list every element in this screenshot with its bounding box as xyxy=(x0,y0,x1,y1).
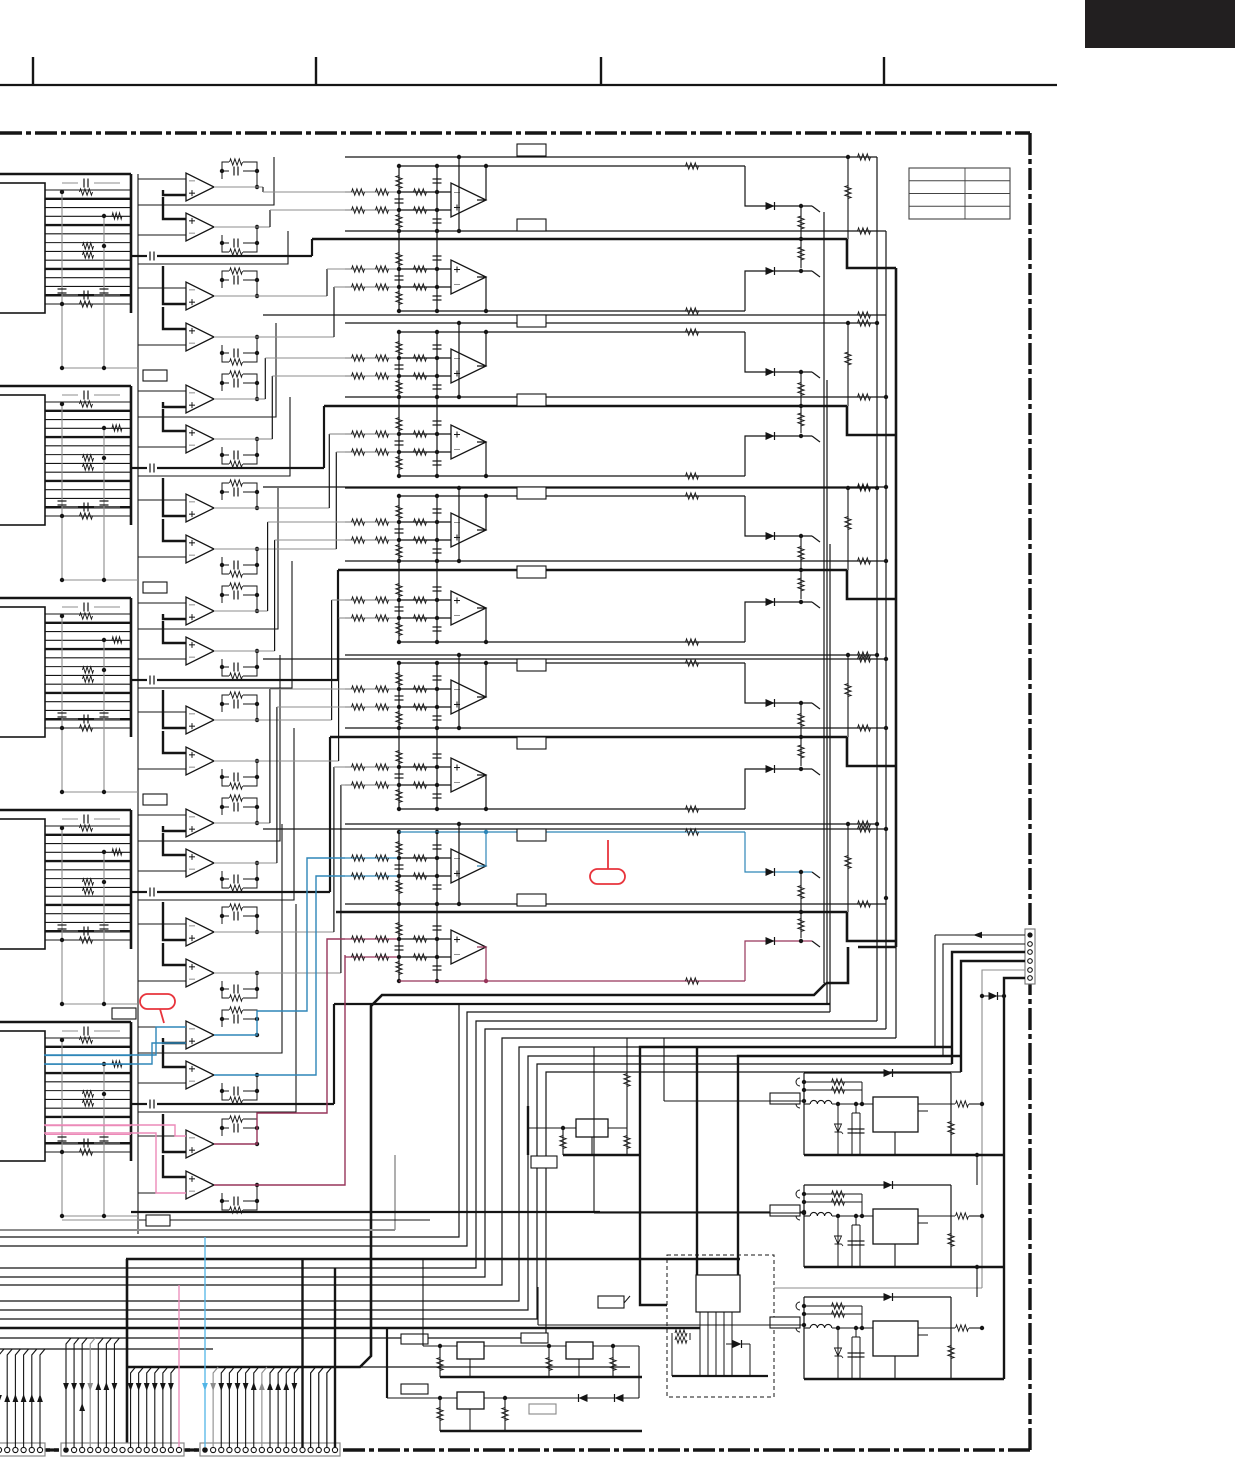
connector pin xyxy=(13,1447,18,1452)
signal wire xyxy=(262,187,264,192)
feedback resistor xyxy=(230,461,243,467)
vertical bus wire xyxy=(137,810,139,1022)
feedback resistor xyxy=(230,795,243,801)
IC block U1 xyxy=(0,183,45,313)
bias bus wire xyxy=(436,832,438,979)
wire xyxy=(399,375,451,377)
resistor xyxy=(83,667,94,673)
feedback rail wire xyxy=(399,165,745,167)
connector drop wire xyxy=(40,1349,45,1447)
signal wire xyxy=(332,599,345,601)
feedback capacitor xyxy=(233,1197,235,1206)
signal wire xyxy=(269,689,271,823)
resistor xyxy=(376,764,389,770)
resistor xyxy=(396,751,402,764)
signal wire xyxy=(329,737,331,892)
bypass wire xyxy=(103,852,105,1004)
signal wire xyxy=(270,688,345,690)
feedback resistor xyxy=(804,1193,862,1195)
pink signal wire xyxy=(44,1125,186,1136)
diode xyxy=(766,937,775,945)
op-amp buffer xyxy=(138,923,186,925)
resistor xyxy=(675,1337,687,1343)
resistor xyxy=(80,937,93,943)
title strip tick xyxy=(600,57,602,85)
resistor xyxy=(396,215,402,228)
signal wire xyxy=(327,268,345,270)
resistor xyxy=(624,1074,630,1087)
coupling capacitor wire xyxy=(131,891,147,893)
signal arrow xyxy=(218,1383,224,1391)
IC ground pin xyxy=(894,1356,896,1379)
resistor xyxy=(396,253,402,266)
signal wire xyxy=(275,539,345,541)
feedback resistor xyxy=(230,904,243,910)
capacitor xyxy=(433,844,442,846)
power op-amp xyxy=(451,425,486,459)
feedback capacitor xyxy=(233,875,235,884)
bias feed wire xyxy=(847,323,849,406)
diode xyxy=(579,1394,588,1402)
resistor xyxy=(845,856,851,869)
power rail jog xyxy=(847,737,896,766)
signal wire xyxy=(311,239,313,256)
wire xyxy=(812,769,820,775)
connector pin xyxy=(168,1447,173,1452)
signal arrow xyxy=(226,1383,232,1391)
bias bus wire xyxy=(436,332,438,474)
output wire xyxy=(477,663,486,697)
connector drop wire xyxy=(0,1349,4,1447)
value label xyxy=(517,394,546,406)
signal wire xyxy=(331,600,333,720)
wire xyxy=(399,617,451,619)
signal arrow xyxy=(128,1383,134,1391)
input wire xyxy=(345,375,399,377)
T1 pin wire xyxy=(715,1312,717,1376)
wire xyxy=(399,857,451,859)
capacitor xyxy=(395,528,404,530)
feedback resistor xyxy=(230,995,243,1001)
U1 pin wire xyxy=(45,215,131,217)
wire xyxy=(774,1287,982,1289)
signal wire xyxy=(257,226,270,228)
connector pin xyxy=(1027,932,1032,937)
op-amp buffer xyxy=(163,1045,186,1067)
resistor xyxy=(956,1213,969,1219)
bus wire xyxy=(885,231,887,1029)
resistor xyxy=(83,676,94,682)
power rail wire xyxy=(312,238,847,241)
signal wire xyxy=(257,931,334,933)
U2 pin wire xyxy=(45,489,131,491)
power op-amp xyxy=(451,513,486,547)
signal wire xyxy=(339,617,345,619)
resistor xyxy=(376,207,389,213)
channel rail wire xyxy=(345,727,886,729)
feedback resistor xyxy=(686,493,699,499)
capacitor xyxy=(433,420,442,422)
bypass return wire xyxy=(62,791,138,793)
U1 pin wire xyxy=(45,277,131,279)
U2 pin wire xyxy=(45,462,131,464)
bias bus wire xyxy=(398,332,400,474)
op-amp buffer xyxy=(163,307,186,329)
power rail jog xyxy=(847,406,896,435)
connector CN right xyxy=(1025,929,1035,984)
power wire xyxy=(640,1155,667,1305)
U3 pin wire xyxy=(45,639,131,641)
U5 pin wire xyxy=(45,1063,131,1065)
input wire xyxy=(345,766,399,768)
op-amp buffer xyxy=(163,943,186,965)
IC block U4 xyxy=(0,819,45,949)
wire xyxy=(745,769,812,809)
U3 pin wire xyxy=(45,692,131,694)
IC ground pin xyxy=(894,1244,896,1267)
wire xyxy=(458,655,460,728)
resistor xyxy=(800,703,802,737)
title strip rule xyxy=(0,84,1057,86)
resistor xyxy=(800,206,802,239)
wire xyxy=(1004,978,1025,1379)
signal wire xyxy=(326,269,328,296)
signal arrow xyxy=(0,1395,2,1403)
signal wire xyxy=(257,972,341,974)
resistor xyxy=(83,243,94,249)
power wire xyxy=(696,1047,698,1275)
resistor xyxy=(352,189,365,195)
coupling capacitor wire xyxy=(131,467,147,469)
feedback resistor xyxy=(804,1313,862,1315)
resistor xyxy=(396,381,402,394)
vertical bus wire xyxy=(137,1022,139,1234)
feedback rail wire xyxy=(399,331,745,333)
capacitor xyxy=(395,606,404,608)
bias bus wire xyxy=(436,166,438,309)
input wire xyxy=(345,286,399,288)
resistor xyxy=(800,737,802,766)
resistor xyxy=(414,266,427,272)
resistor xyxy=(352,449,365,455)
feedback resistor xyxy=(230,571,243,577)
input wire xyxy=(345,451,399,453)
U4 pin wire xyxy=(45,878,131,880)
connector pin xyxy=(144,1447,149,1452)
feedback resistor xyxy=(230,1097,243,1103)
resistor xyxy=(414,284,427,290)
signal arrow xyxy=(103,1382,109,1390)
resistor xyxy=(675,1330,687,1336)
diode xyxy=(884,1069,893,1077)
value label xyxy=(143,582,167,593)
connector drop wire xyxy=(155,1367,160,1447)
capacitor xyxy=(83,603,85,612)
signal wire xyxy=(336,451,345,453)
connector pin xyxy=(219,1447,224,1452)
power op-amp xyxy=(451,591,486,625)
coupling capacitor wire xyxy=(131,1103,147,1105)
value label xyxy=(517,659,546,671)
op-amp buffer xyxy=(163,621,186,643)
channel rail wire xyxy=(345,560,886,562)
feedback resistor xyxy=(230,1007,243,1013)
feedback rail wire xyxy=(399,831,745,833)
resistor xyxy=(414,537,427,543)
resistor xyxy=(800,372,802,406)
zener diode xyxy=(112,213,122,219)
IC block U4 pin bus xyxy=(130,810,133,949)
resistor xyxy=(352,954,365,960)
input wire xyxy=(345,209,399,211)
signal wire xyxy=(214,548,257,550)
bypass wire xyxy=(61,192,63,368)
signal wire xyxy=(214,760,257,762)
power bus wire xyxy=(895,268,898,947)
connector drop wire xyxy=(147,1367,152,1447)
wire xyxy=(638,1346,640,1398)
signal wire xyxy=(157,255,312,257)
U4 pin wire xyxy=(45,895,131,897)
signal wire xyxy=(257,719,332,721)
wire xyxy=(399,451,451,453)
capacitor xyxy=(433,626,442,628)
bypass wire xyxy=(61,828,63,1004)
signal wire xyxy=(257,862,277,864)
ribbon wire xyxy=(0,1229,395,1231)
signal arrow xyxy=(210,1383,216,1391)
wire xyxy=(399,599,451,601)
signal arrow xyxy=(21,1394,27,1402)
title strip tick xyxy=(32,57,34,85)
signal arrow xyxy=(112,1383,118,1391)
resistor xyxy=(800,570,802,599)
signal wire xyxy=(214,650,257,652)
wire xyxy=(458,824,460,904)
signal wire xyxy=(257,186,263,188)
resistor xyxy=(800,912,802,938)
U2 pin wire xyxy=(45,497,131,499)
bus wire xyxy=(876,157,878,1021)
feedback resistor xyxy=(686,660,699,666)
wire xyxy=(812,941,820,947)
capacitor xyxy=(58,712,67,714)
bypass wire xyxy=(103,1064,105,1216)
power wire xyxy=(527,1106,529,1155)
feedback resistor xyxy=(804,1201,862,1203)
capacitor xyxy=(83,179,85,188)
feedback resistor xyxy=(230,371,243,377)
wire xyxy=(399,784,451,786)
wire xyxy=(745,941,812,981)
blue signal wire xyxy=(44,1043,186,1064)
signal wire xyxy=(272,375,345,377)
resistor xyxy=(80,301,93,307)
resistor xyxy=(414,764,427,770)
signal wire xyxy=(214,226,257,228)
signal wire xyxy=(333,767,335,932)
value label xyxy=(531,1156,557,1168)
output wire xyxy=(477,332,486,366)
feedback resistor xyxy=(804,1089,862,1091)
resistor xyxy=(948,1346,954,1359)
feedback capacitor xyxy=(233,663,235,672)
U3 pin wire xyxy=(45,727,131,729)
feedback rail wire xyxy=(399,475,745,477)
connector strip CN2 xyxy=(61,1443,184,1456)
capacitor xyxy=(433,344,442,346)
feedback capacitor xyxy=(233,349,235,358)
connector strip CN1 xyxy=(0,1443,45,1456)
resistor xyxy=(352,266,365,272)
resistor xyxy=(376,284,389,290)
wire xyxy=(812,372,820,378)
signal wire xyxy=(214,610,257,612)
resistor xyxy=(948,1122,954,1135)
value label xyxy=(146,1215,170,1226)
signal arrow xyxy=(87,1383,93,1391)
resistor xyxy=(396,506,402,519)
signal wire xyxy=(334,1003,830,1005)
capacitor xyxy=(83,815,85,824)
capacitor xyxy=(859,1225,861,1267)
resistor xyxy=(376,855,389,861)
connector pin xyxy=(211,1447,216,1452)
signal arrow xyxy=(235,1383,241,1391)
U2 pin wire xyxy=(45,410,131,412)
diode xyxy=(766,532,775,540)
wire xyxy=(399,688,451,690)
U5 pin wire xyxy=(45,1037,131,1039)
resistor xyxy=(80,1149,93,1155)
capacitor xyxy=(433,218,442,220)
capacitor xyxy=(433,753,442,755)
resistor xyxy=(845,186,851,199)
output wire xyxy=(918,1215,955,1217)
ribbon wire xyxy=(394,1155,396,1230)
resistor xyxy=(352,207,365,213)
wire xyxy=(399,209,451,211)
channel rail wire xyxy=(263,658,886,660)
feedback resistor xyxy=(230,783,243,789)
feedback resistor xyxy=(804,1305,862,1307)
U4 pin wire xyxy=(45,930,131,932)
signal wire xyxy=(334,286,345,288)
U3 pin wire xyxy=(45,718,131,720)
ground rail xyxy=(804,1378,1004,1380)
diode xyxy=(615,1394,624,1402)
resistor xyxy=(352,355,365,361)
resistor xyxy=(858,394,871,400)
bias feed wire xyxy=(847,824,849,912)
connector pin xyxy=(80,1447,85,1452)
IC block U5 xyxy=(0,1031,45,1161)
T1 pin wire xyxy=(723,1312,725,1376)
signal wire xyxy=(274,540,276,651)
zener diode xyxy=(982,995,1004,997)
signal arrow xyxy=(251,1382,257,1390)
resistor xyxy=(376,537,389,543)
feedback resistor xyxy=(686,829,699,835)
signal wire xyxy=(267,522,269,611)
resistor xyxy=(396,842,402,855)
U4 pin wire xyxy=(45,860,131,862)
DC-DC converter block 1 xyxy=(803,1073,805,1155)
input wire xyxy=(345,688,399,690)
control wire xyxy=(138,323,276,417)
resistor xyxy=(414,449,427,455)
signal arrow xyxy=(243,1383,249,1391)
ground rail xyxy=(440,1430,642,1432)
signal arrow xyxy=(267,1382,273,1390)
signal wire xyxy=(214,186,257,188)
signal wire xyxy=(214,972,257,974)
coupling capacitor wire xyxy=(131,255,147,257)
value label xyxy=(143,370,167,381)
resistor xyxy=(352,615,365,621)
feedback resistor xyxy=(686,978,699,984)
IC ground pin xyxy=(894,1132,896,1155)
diode xyxy=(766,432,775,440)
power op-amp xyxy=(451,849,486,883)
signal wire xyxy=(157,467,324,469)
resistor xyxy=(396,623,402,636)
U5 pin wire xyxy=(45,1107,131,1109)
value label xyxy=(517,219,546,231)
resistor xyxy=(396,292,402,305)
feedback resistor xyxy=(686,329,699,335)
zener diode xyxy=(112,425,122,431)
wire xyxy=(399,938,451,940)
wire xyxy=(399,706,451,708)
IC block U3 top rail xyxy=(0,597,131,600)
U5 pin wire xyxy=(45,1125,131,1127)
connector strip CN3 xyxy=(200,1443,340,1456)
wire xyxy=(745,832,812,872)
capacitor xyxy=(83,1027,85,1036)
resistor xyxy=(800,872,802,912)
signal wire xyxy=(157,891,330,893)
wire xyxy=(399,191,451,193)
input wire xyxy=(345,357,399,359)
capacitor xyxy=(433,793,442,795)
bypass return wire xyxy=(62,367,138,369)
bus wire xyxy=(895,947,897,1038)
IC block U3 xyxy=(0,607,45,737)
capacitor xyxy=(100,1136,109,1138)
connector drop wire xyxy=(213,1367,218,1447)
control wire xyxy=(138,561,292,688)
connector drop wire xyxy=(66,1338,71,1447)
feedback capacitor xyxy=(233,803,235,812)
wire xyxy=(386,1328,388,1398)
power wire xyxy=(128,983,826,1367)
ground rail xyxy=(563,1154,640,1156)
U1 pin wire xyxy=(45,189,131,191)
control wire xyxy=(138,904,296,1112)
resistor xyxy=(352,764,365,770)
resistor xyxy=(376,782,389,788)
control wire xyxy=(138,397,290,476)
value label xyxy=(143,794,167,805)
feedback resistor xyxy=(230,159,243,165)
signal wire xyxy=(335,452,337,549)
bypass wire xyxy=(103,216,105,368)
feedback resistor xyxy=(230,885,243,891)
bus wire xyxy=(126,1258,740,1261)
resistor xyxy=(376,449,389,455)
diode xyxy=(766,267,775,275)
